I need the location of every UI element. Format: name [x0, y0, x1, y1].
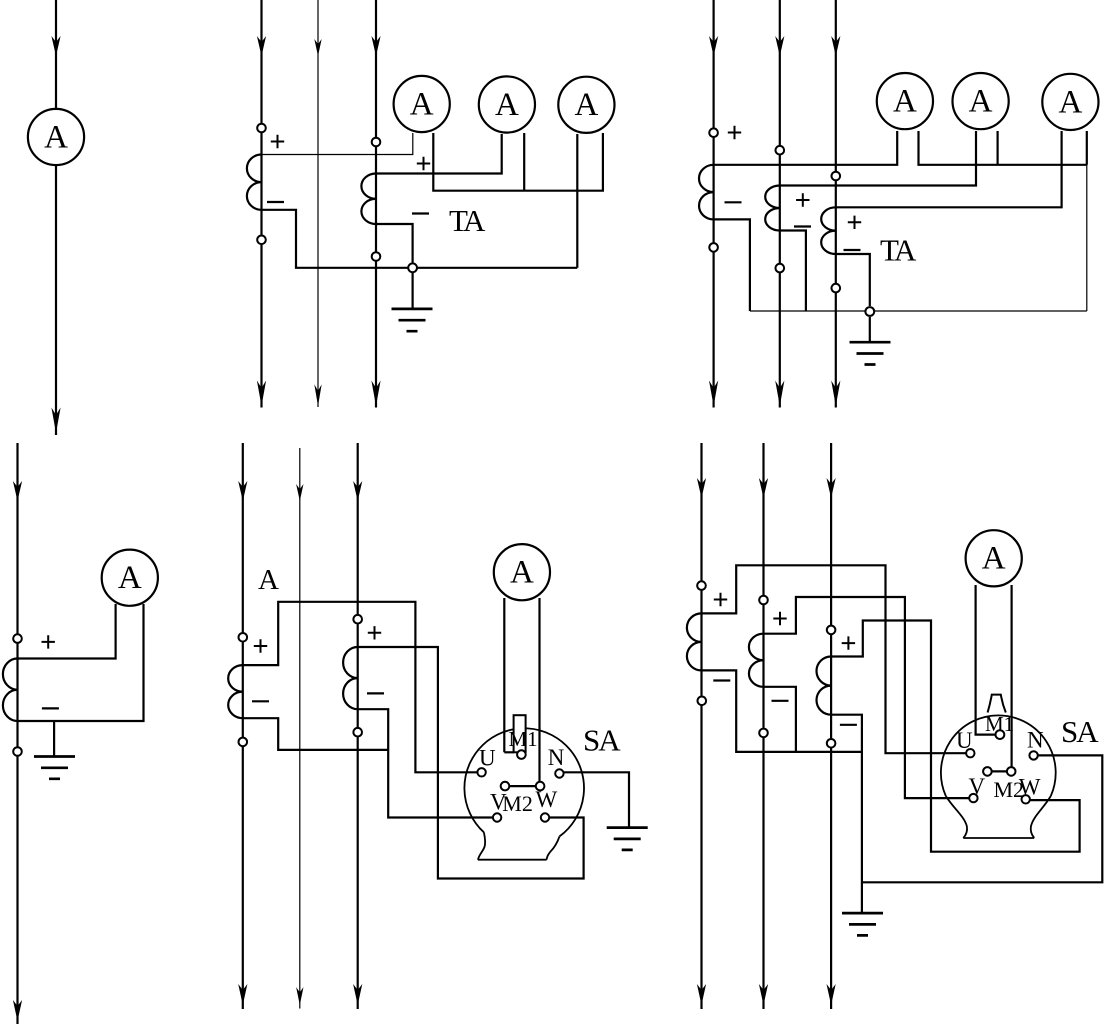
- current direction arrow (bottom): [51, 408, 60, 434]
- SA terminal W: [1021, 795, 1029, 803]
- wire TA1- down: [714, 219, 750, 311]
- SA terminal N: [1029, 751, 1037, 759]
- wire TA2- to common: [764, 687, 796, 752]
- phase line L1 (diagram 1): [55, 0, 57, 435]
- wire TA2+ to SA terminal W: [358, 647, 584, 879]
- arrow U top: [697, 478, 706, 498]
- current transformer TA3 coil (diagram 6): [816, 657, 831, 715]
- wire A2 right lead to bus: [996, 131, 998, 165]
- SA bell base: [478, 859, 547, 861]
- terminal TA1 bottom: [239, 738, 248, 747]
- wire TA3+ to SA terminal W: [831, 621, 1080, 852]
- TA polarity +: [42, 635, 55, 648]
- wire TA2- to junction: [376, 224, 413, 268]
- phase line U (diagram 5): [242, 443, 244, 1009]
- ammeter A (diagram 5): [494, 544, 550, 600]
- terminal TA bottom: [13, 747, 22, 756]
- arrow top: [13, 481, 22, 501]
- phase line V (diagram 2): [317, 0, 319, 407]
- arrow U bottom: [697, 984, 706, 1005]
- SA terminal V: [969, 794, 977, 802]
- terminal TA top: [13, 634, 22, 643]
- TA2 polarity +: [417, 157, 430, 170]
- svg-text:M1: M1: [509, 727, 538, 751]
- current transformer TA1 coil (diagram 3): [699, 165, 714, 220]
- terminal TA2 bottom: [776, 264, 785, 273]
- wire M contact bridge: [987, 770, 1011, 772]
- ammeter A (diagram 4): [102, 550, 158, 606]
- terminal TA2 top: [759, 596, 768, 605]
- wire ammeter left lead to M1: [503, 598, 505, 752]
- arrow U top: [257, 36, 266, 56]
- wire A3 right lead: [1086, 131, 1088, 165]
- ammeter A3 (diagram 2): [558, 77, 614, 133]
- svg-text:TA: TA: [449, 203, 486, 238]
- TA2 polarity +: [773, 612, 786, 625]
- wire TA1- to common: [243, 718, 388, 750]
- ground (diagram 2): [392, 309, 433, 331]
- ammeter A (diagram 6): [966, 530, 1022, 586]
- wire TA+ to ammeter left lead: [18, 604, 116, 659]
- wire TA3- to junction: [836, 254, 870, 306]
- SA handle: [514, 715, 526, 752]
- svg-text:M2: M2: [502, 791, 533, 816]
- svg-text:U: U: [479, 746, 496, 771]
- ammeter A3 (diagram 3): [1042, 74, 1098, 130]
- TA3 polarity +: [848, 216, 861, 229]
- TA1 polarity -: [267, 201, 284, 203]
- TA2 polarity -: [794, 225, 811, 227]
- current transformer TA1 coil (diagram 6): [687, 613, 702, 670]
- ammeter A (diagram 1): [28, 109, 84, 165]
- svg-text:A: A: [410, 86, 434, 122]
- TA1 polarity -: [713, 679, 730, 681]
- phase line V (diagram 3): [779, 0, 781, 408]
- svg-text:A: A: [1058, 84, 1082, 120]
- TA2 polarity -: [772, 700, 789, 702]
- ammeter A2 (diagram 2): [479, 76, 535, 132]
- svg-text:SA: SA: [1061, 714, 1099, 749]
- svg-text:M2: M2: [994, 777, 1025, 802]
- arrow U bottom: [238, 984, 247, 1005]
- wire A3 left lead to ground bus: [576, 134, 578, 268]
- terminal TA2 bottom: [353, 728, 362, 737]
- junction node (grounded): [408, 263, 417, 272]
- wire A1 right lead - common bus: [919, 131, 1087, 165]
- SA contact M1: [996, 730, 1005, 739]
- wire ammeter right lead to M contact: [1010, 585, 1012, 768]
- terminal TA1 bottom: [698, 697, 707, 706]
- wire ammeter right lead to TA-: [18, 604, 144, 721]
- svg-text:U: U: [956, 728, 973, 753]
- ground (diagram 3): [850, 342, 891, 364]
- terminal TA1 top: [697, 581, 706, 590]
- TA1 polarity +: [714, 593, 727, 606]
- SA bell base: [963, 837, 1034, 839]
- wire ammeter right lead to M contact: [538, 598, 540, 784]
- current transformer TA1 coil (diagram 5): [228, 665, 243, 718]
- terminal TA1 top: [709, 128, 718, 137]
- wire TA1- to common: [702, 670, 862, 752]
- TA1 polarity -: [725, 201, 742, 203]
- wire TA1+ to A1 left lead: [714, 131, 898, 165]
- arrow V bottom: [759, 984, 768, 1005]
- phase line W (diagram 5): [357, 443, 359, 1009]
- svg-text:A: A: [982, 541, 1006, 577]
- svg-text:N: N: [548, 745, 565, 770]
- wire ammeter left lead elbow to M1 handle: [504, 751, 513, 753]
- terminal TA1 bottom: [709, 243, 718, 252]
- SA terminal N: [555, 769, 563, 777]
- arrow W bottom: [353, 984, 362, 1005]
- SA terminal V: [493, 813, 501, 821]
- svg-text:TA: TA: [880, 233, 917, 268]
- TA2 polarity -: [367, 692, 384, 694]
- svg-text:A: A: [574, 87, 598, 123]
- arrow W bottom: [831, 381, 840, 407]
- current direction arrow (top): [51, 36, 60, 56]
- SA terminal U: [966, 749, 974, 757]
- svg-text:A: A: [893, 84, 917, 120]
- terminal TA3 top: [832, 172, 841, 181]
- TA1 polarity -: [252, 700, 269, 702]
- wire TA2-/common to SA terminal V: [358, 709, 497, 817]
- TA1 polarity +: [728, 126, 741, 139]
- SA moving contact left: [501, 782, 510, 791]
- ammeter A1 (diagram 2): [394, 76, 450, 132]
- SA contact M1: [517, 750, 526, 759]
- current transformer TA2 coil (diagram 6): [749, 634, 764, 687]
- TA1 polarity +: [254, 639, 267, 652]
- terminal TA3 top: [827, 626, 836, 635]
- wire TA1+ to A1 left lead (thin): [262, 133, 413, 155]
- phase line U (diagram 6): [700, 443, 702, 1009]
- selector switch SA body (diagram 6): [941, 715, 1056, 796]
- svg-text:A: A: [510, 555, 534, 591]
- TA3 polarity -: [840, 724, 857, 726]
- SA terminal W: [541, 813, 549, 821]
- phase line W (diagram 6): [830, 443, 832, 1009]
- svg-text:W: W: [536, 787, 558, 812]
- phase line U (diagram 3): [712, 0, 714, 408]
- wire to ground: [53, 721, 55, 757]
- SA bell skirt left: [478, 832, 485, 859]
- arrow W top: [371, 36, 380, 56]
- svg-text:SA: SA: [583, 723, 621, 758]
- arrow U top: [709, 36, 718, 56]
- wire A1 right lead - common bus - A3 right lead: [433, 133, 603, 191]
- wire junction to ground: [869, 317, 871, 342]
- TA1 polarity +: [271, 135, 284, 148]
- terminal TA1 top: [239, 633, 248, 642]
- current transformer TA2 coil (diagram 3): [765, 186, 780, 231]
- TA2 polarity +: [796, 193, 809, 206]
- arrow V top: [314, 39, 321, 56]
- phase line (diagram 4): [16, 443, 18, 1024]
- wire TA1+ to SA terminal U: [243, 602, 482, 773]
- svg-text:N: N: [1027, 728, 1044, 753]
- ammeter A1 (diagram 3): [877, 73, 933, 129]
- SA bell skirt right: [1031, 796, 1051, 838]
- SA moving contact right: [1007, 767, 1016, 776]
- wire SA terminal N to ground: [862, 755, 1102, 882]
- SA handle: [988, 695, 1006, 713]
- terminal TA2 top: [372, 138, 381, 147]
- terminal TA3 bottom: [827, 739, 836, 748]
- SA bell skirt right: [547, 836, 560, 859]
- terminal TA2 bottom: [759, 729, 768, 738]
- wire TA2- down: [780, 231, 806, 312]
- arrow W top: [831, 36, 840, 56]
- terminal TA2 top: [776, 146, 785, 155]
- phase line V (diagram 5): [299, 448, 301, 1009]
- arrow V top: [775, 36, 784, 56]
- phase line W (diagram 2): [375, 0, 377, 408]
- arrow W bottom: [371, 381, 380, 407]
- phase line V (diagram 6): [762, 443, 764, 1009]
- wire TA2+ to A2 left lead: [376, 134, 502, 174]
- arrow V top: [759, 478, 768, 498]
- arrow U bottom: [257, 381, 266, 407]
- terminal TA3 bottom: [832, 284, 841, 293]
- wire TA3- / common down to ground: [831, 715, 862, 913]
- current transformer TA3 coil (diagram 3): [821, 207, 836, 254]
- arrow V bottom: [296, 987, 303, 1005]
- current transformer TA1 coil (diagram 2): [247, 155, 262, 210]
- svg-text:A: A: [495, 87, 519, 123]
- ground bus wire: [413, 267, 578, 269]
- SA moving contact right: [536, 782, 545, 791]
- wire SA terminal N to ground: [559, 772, 629, 827]
- wire common bus down to ground bus (thin): [1086, 165, 1088, 311]
- svg-text:A: A: [44, 119, 68, 155]
- wire TA2+ to SA terminal V: [764, 597, 974, 798]
- TA polarity -: [42, 707, 59, 709]
- arrow U top: [238, 481, 247, 501]
- ground bus wire (thin): [750, 310, 1087, 312]
- current transformer TA2 coil (diagram 5): [343, 647, 358, 709]
- wire A2 right lead to bus: [523, 133, 525, 191]
- ammeter A2 (diagram 3): [953, 73, 1009, 129]
- svg-text:M1: M1: [985, 712, 1014, 736]
- TA2 polarity -: [412, 212, 429, 214]
- TA3 polarity +: [842, 636, 855, 649]
- junction node (grounded): [865, 307, 874, 316]
- arrow V top: [296, 484, 303, 501]
- current transformer TA2 coil (diagram 2): [361, 174, 376, 225]
- terminal TA2 bottom: [372, 252, 381, 261]
- wire junction to ground: [412, 273, 414, 309]
- svg-text:A: A: [969, 84, 993, 120]
- selector switch SA body (diagram 5): [464, 728, 584, 836]
- arrow W bottom: [827, 984, 836, 1005]
- SA moving contact left: [983, 767, 992, 776]
- arrow W top: [827, 478, 836, 498]
- svg-text:A: A: [118, 560, 142, 596]
- SA terminal U: [477, 768, 485, 776]
- terminal TA2 top: [353, 615, 362, 624]
- SA bell skirt left: [946, 796, 967, 838]
- arrow U bottom: [709, 381, 718, 407]
- ground (diagram 4): [34, 757, 75, 779]
- wire TA3+ to A3 left lead: [836, 131, 1062, 207]
- wire M contact bridge: [505, 785, 540, 787]
- arrow V bottom: [775, 381, 784, 407]
- wire TA2+ to A2 left lead: [780, 131, 976, 186]
- arrow W top: [353, 481, 362, 501]
- wire TA1- to junction: [262, 210, 413, 268]
- TA3 polarity -: [844, 249, 861, 251]
- svg-text:A: A: [258, 564, 279, 596]
- TA2 polarity +: [368, 626, 381, 639]
- wire ammeter left lead to M1: [976, 585, 996, 735]
- phase line W (diagram 3): [835, 0, 837, 408]
- current transformer TA coil (diagram 4): [3, 659, 18, 722]
- terminal TA1 top: [257, 124, 266, 133]
- svg-text:V: V: [969, 774, 986, 799]
- phase line U (diagram 2): [260, 0, 262, 408]
- ground (diagram 6): [842, 913, 883, 935]
- arrow V bottom: [314, 384, 321, 406]
- wire TA1+ to SA terminal U: [702, 565, 971, 753]
- ground (diagram 5): [607, 828, 648, 850]
- terminal TA1 bottom: [257, 236, 266, 245]
- arrow bottom: [13, 1000, 22, 1021]
